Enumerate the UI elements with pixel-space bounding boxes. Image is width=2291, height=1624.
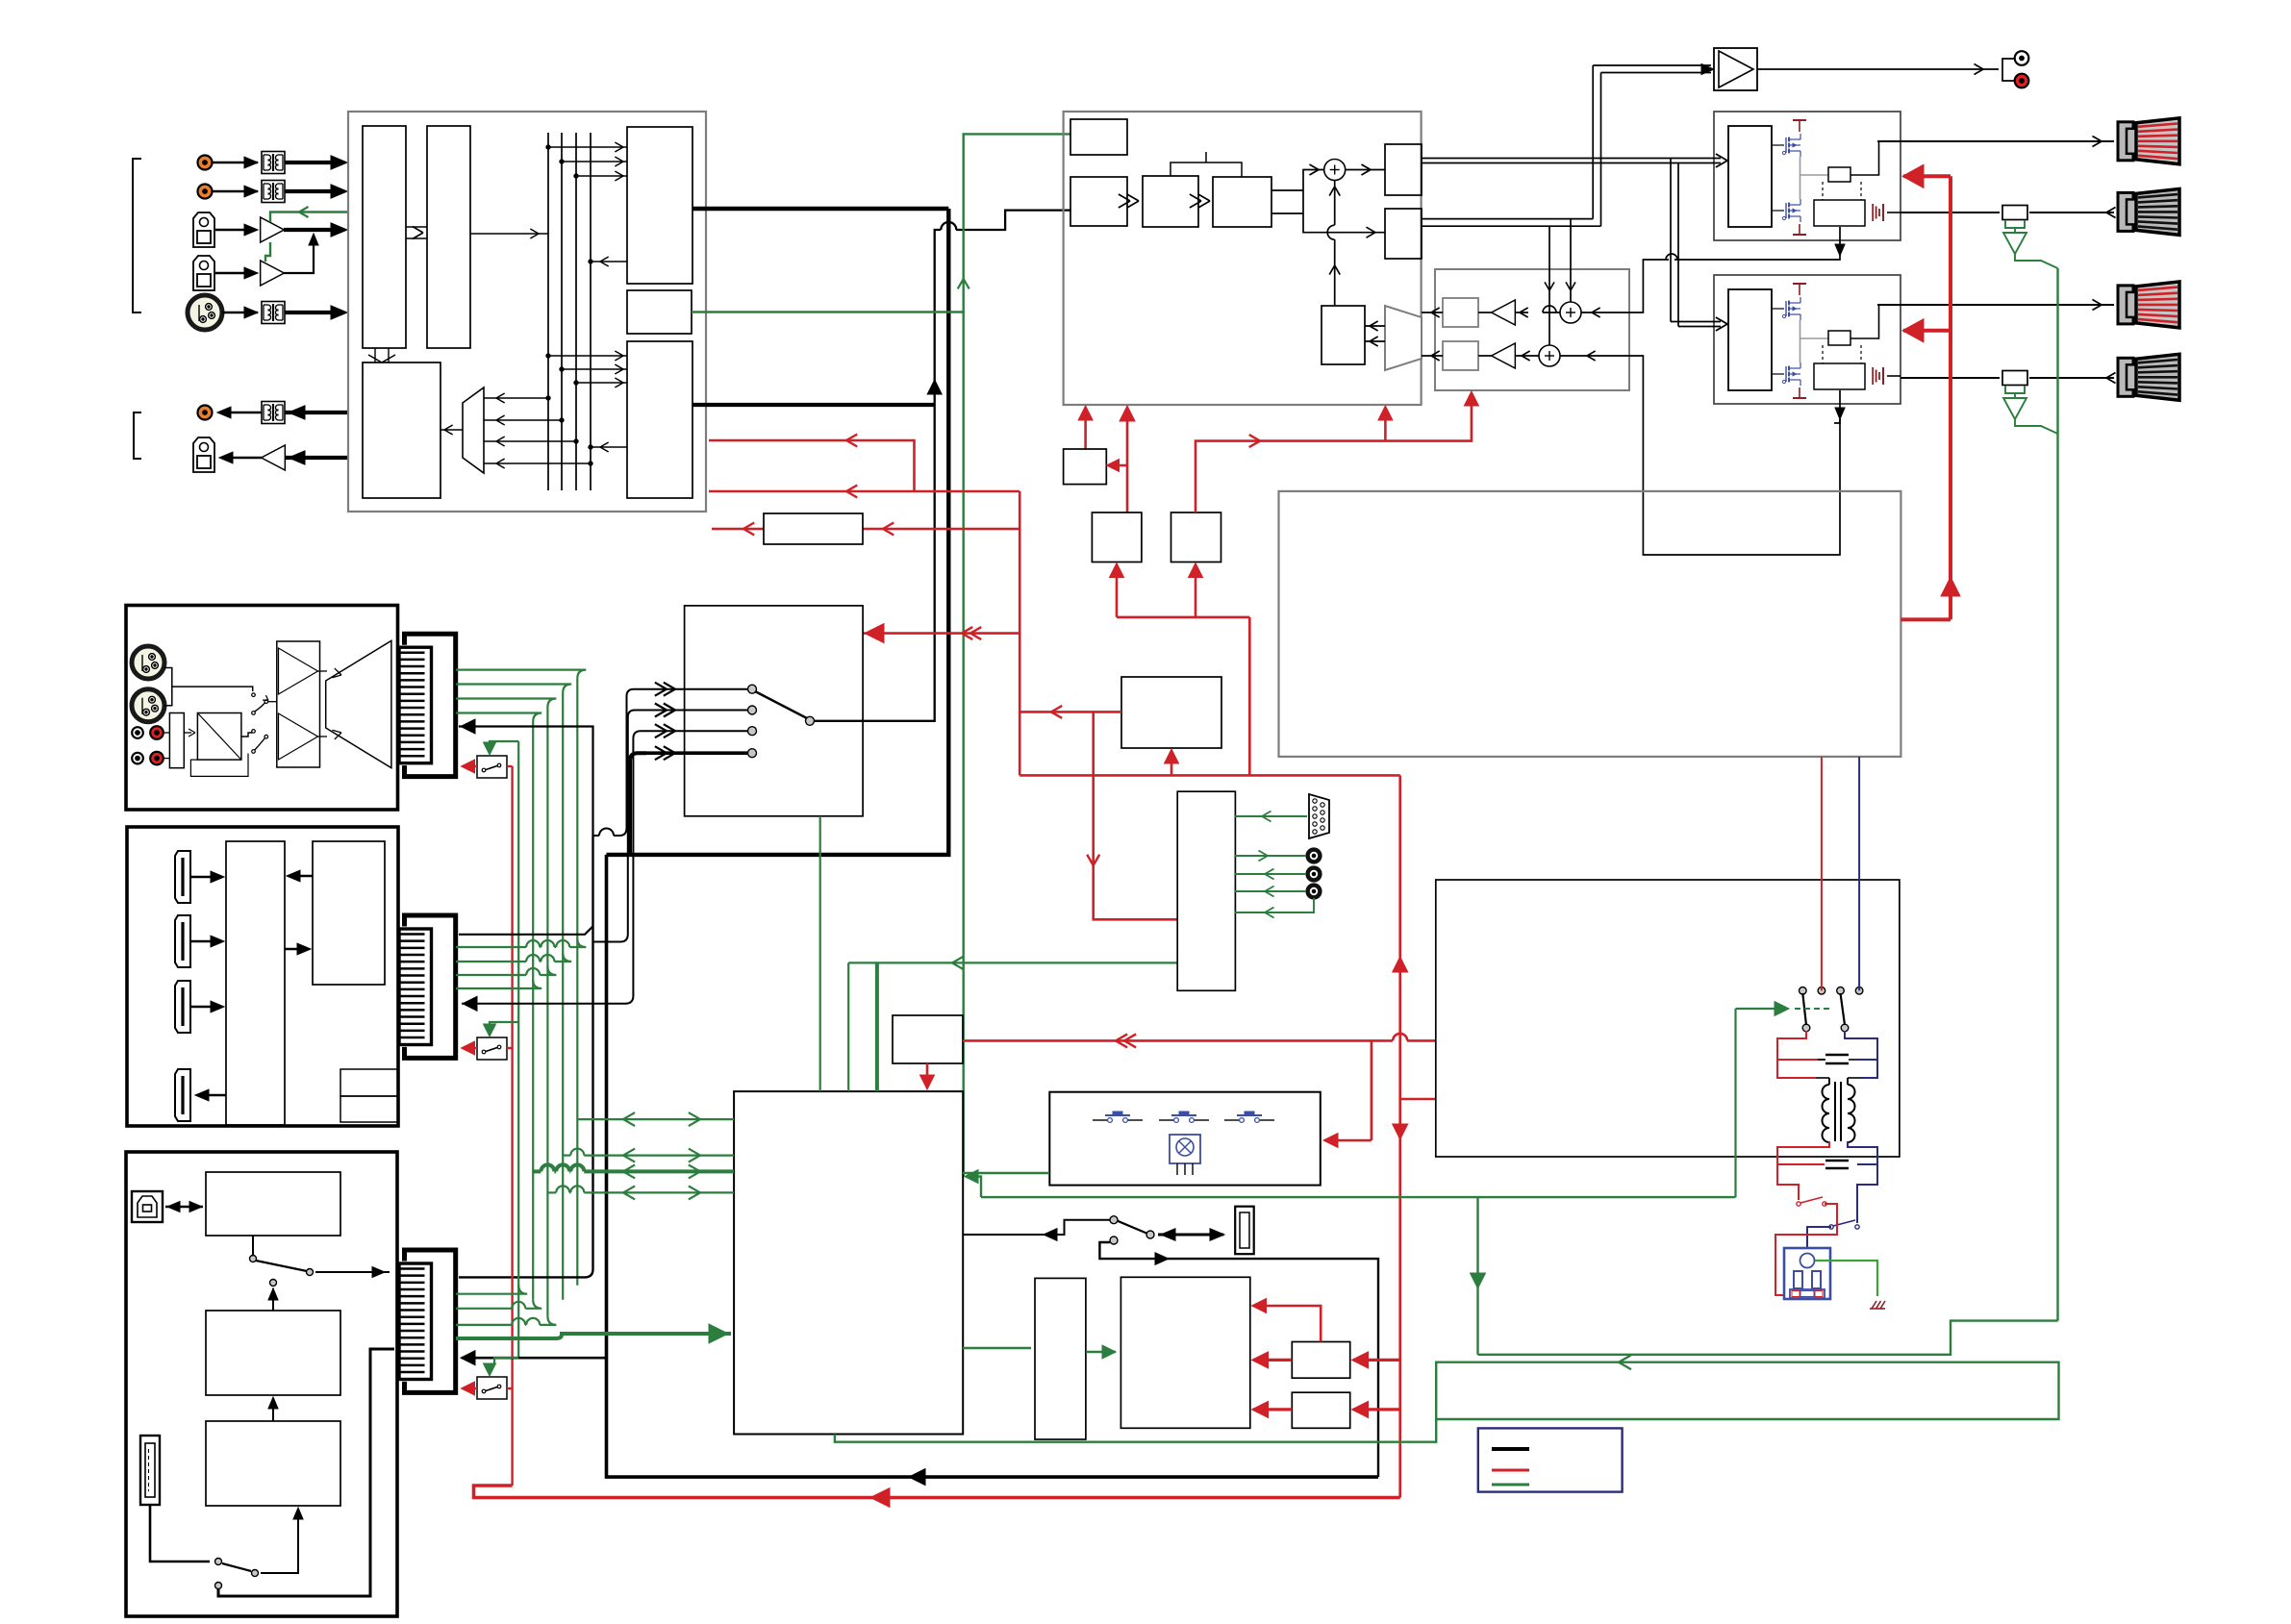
wire Tx to switch: [289, 875, 313, 877]
legend box: [1478, 1428, 1623, 1491]
wire U2d to bus return: [591, 261, 627, 262]
transformer T3: [262, 302, 285, 324]
green switch-control vertical: [517, 741, 519, 1358]
red standby switch SW2: [477, 1037, 507, 1060]
wire A3 to U4d: [1515, 355, 1539, 357]
dashed links: [1822, 345, 1824, 363]
wire buffer to DSP: [284, 228, 342, 232]
tact switch K1: [1093, 1119, 1108, 1121]
control IO board outline: [1177, 791, 1235, 990]
green wire into front panel: [963, 1172, 1049, 1174]
USB storage block B3: [206, 1421, 340, 1506]
wire return from ground icon: [1887, 212, 1901, 213]
red branch y550 with filter box: [863, 528, 1020, 531]
transformer T4: [262, 402, 285, 424]
wire U3f to DAC clock A3: [1548, 226, 1550, 345]
bus line V3: [575, 133, 577, 490]
dashed links: [1822, 182, 1824, 200]
green sense return vertical: [2056, 268, 2058, 1321]
wire U2d thick output to selector riser: [692, 207, 948, 212]
aux supply B1: [1035, 1278, 1086, 1439]
phono stage box: [197, 713, 241, 761]
PSU box outline: [1436, 880, 1900, 1157]
USB processing block B2: [206, 1311, 340, 1395]
green control into SW2: [490, 1022, 518, 1035]
bidir wire USB-B to block: [165, 1206, 203, 1209]
wires XLR to switch: [164, 668, 172, 706]
red arrow into AMP1: [1903, 174, 1951, 178]
buffer U4c: [1492, 300, 1516, 325]
buffer U1c: [262, 445, 286, 470]
bidir wire to front USB-A: [1158, 1234, 1223, 1237]
wire T3 to DSP: [285, 311, 342, 314]
legend red line: [1492, 1469, 1529, 1472]
green earth wire: [1815, 1261, 1877, 1296]
gate wires: [1772, 308, 1784, 310]
wire U3f to pre-out risers: [1422, 218, 1593, 220]
gate wires: [1772, 144, 1784, 146]
drain rail ticks: [1799, 120, 1800, 132]
selector input lines: [642, 688, 748, 690]
sense resistor R1: [2002, 206, 2027, 220]
block U2c output section: [363, 362, 441, 498]
wire U3d to summer: [1271, 189, 1303, 191]
HDMI input port H2: [175, 915, 190, 967]
thick green MCU top vertical 3: [875, 962, 879, 1091]
red bottom trunk: [474, 1486, 1400, 1498]
green MCU top vertical 2: [847, 962, 849, 1091]
green wire to T2: [1235, 873, 1306, 875]
balanced/unbalanced switch contacts: [252, 693, 256, 697]
speaker terminal SP1 (red): [2118, 122, 2133, 161]
bus arrow U2a to U2b: [406, 226, 427, 228]
block U4b DAC R: [1443, 341, 1478, 370]
blue winding feed from relay: [1858, 757, 1860, 990]
red P2 to B2: [1253, 1408, 1292, 1411]
green vertical control trunk to MCU: [963, 312, 965, 1177]
wire T4 to J6: [219, 412, 285, 414]
AMP2 output to speaker 3: [1877, 304, 2114, 306]
red standby switch SW1: [477, 756, 507, 778]
wire feedback riser into summer: [1334, 239, 1336, 306]
tact switch K3: [1224, 1119, 1240, 1121]
wires buffers to M3: [318, 670, 328, 672]
block S2 regulator: [1092, 512, 1142, 562]
red wire SW1 to rail: [507, 765, 513, 767]
block U3d processing stage 2: [1213, 177, 1271, 227]
wire J2 to T2: [213, 190, 258, 193]
green sense bracket 1: [2005, 220, 2025, 228]
red arrow SB into MCU: [926, 1063, 929, 1087]
wire USB-A to lower switch: [150, 1505, 210, 1562]
wire U4d to U4b: [1478, 355, 1492, 357]
green wire to T1: [1235, 855, 1306, 857]
wire lower switch alt to riser: [218, 1349, 394, 1596]
red continue to DAC bottom: [1385, 393, 1472, 441]
black tap CN2 upper to riser: [459, 926, 593, 935]
black wire riser to selector input2: [593, 711, 643, 942]
block U3b input stage: [1070, 177, 1127, 226]
coax input jack J1 (RCA): [198, 156, 213, 170]
speaker terminal SP3 (red): [2118, 286, 2133, 324]
wire M1 to U2c: [441, 429, 463, 431]
green horizontal y1001 to control board: [848, 962, 1177, 963]
red wire to mains switch: [1777, 1164, 1799, 1200]
output filter box: [1814, 200, 1865, 226]
optical input jack J4 (toslink): [193, 256, 214, 290]
red rail branch into P1: [1353, 1359, 1400, 1362]
phono return loop: [190, 754, 248, 777]
block S4 main regulator: [1121, 677, 1221, 748]
red S4 output to x1060 rail: [1020, 491, 1121, 712]
front panel board outline: [1049, 1092, 1321, 1186]
HDMI switch block: [226, 841, 285, 1125]
bracket digital output group: [134, 412, 141, 459]
RCA analog in red L: [150, 726, 164, 739]
trigger jack T1: [1308, 850, 1321, 862]
buffer U1a: [261, 217, 285, 242]
green control wire U2e to DSP2: [692, 134, 1070, 312]
wire DSP to T4: [285, 411, 348, 414]
USB interface block B1: [206, 1172, 340, 1236]
wire amp2 feedback into A3: [1560, 355, 1629, 357]
RCA analog in white L: [132, 727, 143, 738]
DSP2 block U3 outline: [1064, 112, 1422, 405]
black wire CN2 to selector input3: [462, 731, 642, 1004]
pre-out buffer U5: [1714, 48, 1757, 90]
wire pre-out to jacks: [1757, 68, 1999, 70]
bus line V2: [561, 133, 563, 490]
AMP1 feedback to DAC: [1674, 227, 1840, 260]
bus arrow U3b-U3c: [1127, 201, 1139, 208]
block U2e control port: [627, 290, 692, 334]
DC-DC converter box outline: [1279, 491, 1901, 757]
red supply into DSP2 bottom x1128: [1084, 408, 1087, 449]
green wire to DB9: [1235, 815, 1307, 817]
summer A2: [1560, 302, 1581, 323]
HDMI input port H3: [175, 981, 190, 1033]
wire summer to U3e: [1346, 169, 1385, 171]
mux M1 inputs from bus: [484, 397, 548, 399]
pre-out jack L (white RCA): [2015, 51, 2029, 65]
black wire CN1 to selector input1: [459, 727, 593, 837]
source-drain midpoint wire: [1800, 320, 1801, 362]
green wire to T3: [1235, 890, 1306, 892]
green sense wire 1 to vertical: [2015, 254, 2058, 268]
green B1 to B2: [1086, 1351, 1116, 1353]
RCA analog in white R: [132, 753, 143, 764]
current sense box: [1828, 331, 1850, 345]
mosfet QH: [1785, 137, 1787, 153]
USB board outline: [126, 1152, 397, 1616]
wire J4 to buffer: [215, 272, 256, 275]
legend black line: [1492, 1447, 1529, 1451]
capacitor C2: [1825, 1160, 1849, 1162]
green control into SW3: [490, 1358, 518, 1374]
block U2b sample rate converter: [427, 126, 470, 348]
trigger jack T3: [1308, 886, 1321, 898]
XLR input jack X1: [132, 646, 164, 679]
red power to front panel: [1371, 1040, 1373, 1140]
green jog into MCU: [966, 1177, 981, 1198]
buffer U4d: [1492, 343, 1516, 368]
wire U2f thick output: [692, 403, 935, 407]
wire U2f to bus return: [591, 446, 627, 448]
wire DSP loop down to selector input 4: [607, 209, 949, 855]
red second feed into PSU: [1400, 1098, 1436, 1101]
coax input jack J2 (RCA): [198, 185, 213, 199]
bus wires into U2f: [548, 355, 627, 357]
amp driver block: [1728, 126, 1772, 227]
black wire into CN3 from trunk: [462, 1357, 607, 1360]
HDMI output port H4: [175, 1069, 190, 1121]
wire U3d branch to U3f: [1303, 213, 1385, 233]
MCU block outline: [734, 1091, 963, 1434]
green return wire from T3: [1235, 898, 1314, 912]
green vertical x1536 relay line: [1476, 1197, 1478, 1355]
tact switch K2: [1159, 1119, 1174, 1121]
wire J1 to T1: [213, 162, 258, 164]
green bus verticals: [532, 722, 534, 1300]
red supply riser x1172: [1126, 408, 1129, 512]
wire switch to CN3: [315, 1271, 390, 1273]
block U2a input interface: [363, 126, 406, 348]
green wires CN2: [456, 946, 526, 948]
green from selector bottom to MCU: [819, 816, 821, 1088]
DAC block U4 outline: [1435, 269, 1629, 390]
mains transformer TR1: [1834, 1082, 1836, 1141]
HDMI input port H1: [175, 851, 190, 903]
red feed line y642 to S2 S3: [1117, 616, 1249, 619]
wire amp1 feedback into A2: [1581, 312, 1629, 313]
front panel USB switch wires from MCU: [963, 1220, 1114, 1235]
green bus rows to MCU: [577, 1118, 734, 1120]
HDMI Tx block: [313, 841, 385, 985]
wire sense to output corner: [1850, 305, 1879, 338]
block U3g feedback ADC: [1322, 306, 1365, 364]
mosfet QL: [1785, 203, 1787, 218]
AMP1 output to speaker 1: [1877, 140, 2114, 142]
board-to-board connector CN1: [405, 634, 456, 776]
wire switch to HDMI out: [198, 1094, 226, 1096]
transformer secondary wiring: [1777, 1141, 1829, 1164]
block U4a DAC L: [1443, 298, 1478, 327]
green wires CN1: [456, 670, 586, 679]
amp driver block: [1728, 289, 1772, 390]
speaker ground icon: [1882, 204, 1884, 221]
green relay drive arrow: [1734, 1009, 1736, 1197]
wire selector wiper to ADC: [810, 230, 941, 721]
green jog sense to rail: [1478, 1321, 2058, 1355]
earth ground symbol: [1872, 1301, 1876, 1309]
red wire SW1 to CN1: [463, 765, 477, 767]
red rail branch to DSP U2f upper: [915, 490, 1020, 493]
mosfet QH: [1785, 301, 1787, 316]
legend green line: [1492, 1484, 1529, 1487]
red S4 feed from trunk: [1171, 751, 1173, 775]
summer A3: [1539, 345, 1560, 366]
wire T1 to DSP: [285, 161, 342, 164]
red branch into S1: [1108, 464, 1127, 467]
wire J3 to buffer: [215, 229, 256, 232]
block S3 regulator: [1171, 512, 1221, 562]
trigger jack T2: [1308, 868, 1321, 881]
wires into pre-out buffer: [1593, 64, 1711, 66]
output filter box: [1814, 363, 1865, 389]
red P1 top feed: [1253, 1306, 1321, 1342]
wire buffer to J7: [221, 457, 262, 460]
capacitor C1: [1825, 1054, 1849, 1057]
USB source switch: [252, 1236, 254, 1255]
branch pair down to AMP2: [1670, 159, 1672, 322]
green wires CN3: [456, 1286, 527, 1294]
mains switch red: [1797, 1202, 1800, 1206]
red wire SW2 to CN2: [463, 1047, 477, 1049]
bus wires into U2d: [548, 146, 627, 148]
red rail branch into P2: [1353, 1408, 1400, 1411]
black wire CN1 riser extension to CN3: [459, 836, 593, 1277]
analog input board outline: [126, 606, 398, 811]
sense triangle 2: [2003, 398, 2027, 419]
wire switch to Tx: [285, 948, 308, 950]
mux M1: [463, 387, 484, 473]
bus line V4: [590, 133, 592, 490]
optical output jack J7 (toslink): [193, 437, 214, 472]
rotary encoder: [1170, 1135, 1200, 1163]
board-to-board connector CN3: [405, 1250, 456, 1392]
red S3 output to amps rail: [1196, 441, 1385, 512]
bus line V1: [547, 133, 549, 490]
block U3c processing stage: [1143, 176, 1198, 227]
ADC mux M3: [326, 640, 391, 767]
red wire SW2 to rail: [507, 1047, 513, 1049]
regulator P1: [1292, 1342, 1349, 1379]
transformer T1: [262, 152, 285, 174]
DSP-DIR block U2 outline: [348, 112, 706, 512]
bracket digital input group: [133, 159, 141, 312]
summer A1: [1324, 160, 1346, 181]
input selector box: [685, 606, 864, 816]
red wire switch to inlet fuse: [1775, 1227, 1837, 1295]
wire J5 to T3: [222, 312, 258, 314]
optical input jack J3 (toslink): [193, 212, 214, 247]
block U3f pre-out formatter: [1385, 209, 1422, 259]
red standby rail down left side: [511, 766, 513, 1486]
block U3a control interface: [1070, 119, 1127, 155]
red wire SW3 to CN3: [463, 1387, 477, 1389]
block U2f audio interface: [627, 341, 692, 498]
mux M2: [1385, 306, 1422, 370]
XLR input jack X2: [132, 689, 164, 722]
RCA analog in red R: [150, 752, 164, 765]
red trunk to middle column: [1020, 774, 1400, 777]
green sense wire 2 joining vertical: [2015, 419, 2058, 434]
speaker terminal SP4 (black): [2118, 358, 2133, 396]
green enable wire to optical buffers: [270, 212, 348, 223]
wire selector bottom trunk to USB board: [607, 855, 1379, 1477]
wire lower switch to B3: [261, 1510, 298, 1573]
coax output jack J6 (RCA): [198, 406, 213, 420]
speaker terminal SP2 (black): [2118, 192, 2133, 231]
red standby switch SW3: [477, 1377, 507, 1399]
AMP2 feedback to DAC: [1834, 390, 1840, 423]
thick green CN3 to MCU: [456, 1334, 731, 1338]
source-drain midpoint wire: [1800, 157, 1801, 199]
wire B3 to B2: [272, 1399, 274, 1421]
red branch up into U3 bottom: [1384, 408, 1387, 441]
input buffers box: [277, 641, 320, 767]
sense triangle 1: [2003, 233, 2027, 254]
amp module outline: [1714, 275, 1901, 404]
red arrow into selector: [865, 624, 884, 643]
red riser x1299 from trunk: [1248, 617, 1251, 776]
XLR AES input jack J5: [188, 295, 222, 330]
wire sense to output corner: [1850, 141, 1879, 175]
wire B2 up to switch: [272, 1288, 274, 1311]
green MCU to B1: [963, 1347, 1031, 1349]
wire selector input4 riser: [630, 753, 646, 855]
amp module outline: [1714, 112, 1901, 240]
wire U3f to DAC clock A2: [1570, 219, 1572, 302]
current sense box: [1828, 167, 1850, 182]
clock bracket over U3c-U3d: [1171, 162, 1242, 177]
wires U4 DACs to mux M2: [1422, 312, 1443, 313]
wire return from ground icon: [1887, 375, 1901, 377]
pre-out riser pair: [1592, 65, 1594, 219]
filter box F1: [764, 513, 863, 544]
bus arrows M2 to U3g: [1365, 325, 1385, 327]
mosfet QL: [1785, 366, 1787, 382]
front USB-A connector: [1235, 1207, 1254, 1255]
AMP1 return from speaker 2: [1901, 212, 2000, 213]
wire U4c to U4a: [1478, 312, 1492, 313]
wire lower throw to USB board trunk: [1099, 1242, 1378, 1477]
block U2d digital out formatter: [627, 127, 692, 284]
wire DSP to buffer: [285, 456, 348, 460]
block S1 regulator: [1064, 449, 1107, 485]
board-to-board connector CN2: [405, 915, 456, 1058]
red wire SW3 to rail: [507, 1387, 513, 1389]
green sense bracket 2: [2005, 386, 2025, 393]
red arrow into AMP2: [1903, 329, 1951, 333]
wire U2b out to bus: [470, 233, 548, 235]
relay contacts: [1800, 987, 1807, 995]
red amp power rail x2028: [1949, 176, 1952, 619]
bus arrow U3c-U3d: [1198, 201, 1210, 208]
red main rail riser from PSU: [1398, 775, 1401, 1497]
green relay control horizontal y1245: [981, 1196, 1736, 1198]
input header strip: [169, 713, 184, 768]
wires HDMI to switch: [191, 876, 219, 878]
main standby block B2: [1120, 1277, 1249, 1428]
standby supply box SB above MCU: [893, 1015, 963, 1063]
wire T2 to DSP: [285, 189, 342, 193]
selector wiper: [806, 716, 815, 725]
red DC-DC output to amp rail: [1901, 617, 1951, 621]
red P1 to B2: [1253, 1359, 1292, 1362]
green selector-MCU vertical into top: [819, 1088, 821, 1091]
pre-out jack R (red RCA): [2015, 74, 2029, 88]
green control into SW1: [490, 741, 518, 753]
drain rail ticks: [1799, 284, 1800, 295]
blue wire to mains switch: [1857, 1164, 1877, 1223]
wire buffer J4 output joining J3 line: [284, 237, 314, 273]
RS232 DB9 connector: [1309, 794, 1329, 838]
bus arrow U2a to U2c: [374, 348, 376, 362]
red standby line from PSU to SB: [963, 1039, 1393, 1042]
red winding feed from relay: [1821, 757, 1823, 990]
speaker ground icon: [1882, 367, 1884, 385]
